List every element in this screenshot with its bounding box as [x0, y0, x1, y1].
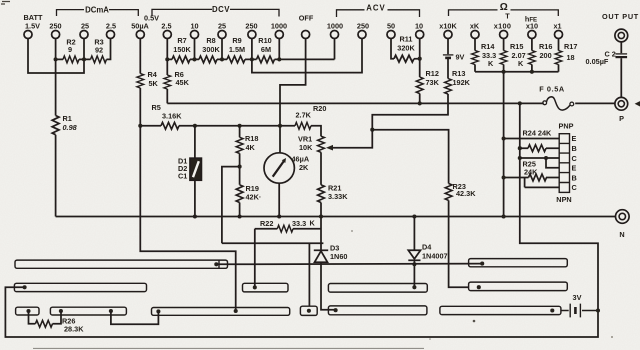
terminal DCV 10 [191, 31, 199, 39]
transistor socket PNP/NPN [559, 134, 569, 193]
terminal DCV 250 [248, 31, 256, 39]
wire rail (common) [56, 216, 616, 218]
svg-text:45K: 45K [176, 78, 190, 87]
svg-text:x10: x10 [526, 22, 538, 31]
resistor R8 [199, 56, 217, 63]
node D1D2C1 bottom [193, 214, 197, 218]
svg-text:PNP: PNP [558, 122, 573, 131]
wire D1D2C1 leads [194, 126, 196, 217]
node VR1 wiper / R13 / R23 [370, 128, 374, 132]
potentiometer VR1 [318, 136, 325, 152]
wire BATT down-right-up to 25 node [28, 39, 84, 74]
node R18 top [238, 124, 242, 128]
svg-text:250: 250 [49, 22, 61, 31]
bracket ohms [449, 10, 559, 16]
wire 9V to R13 [447, 58, 449, 79]
resistor R23 [445, 184, 452, 201]
bracket ACV [337, 10, 420, 17]
svg-text:250: 250 [245, 22, 257, 31]
wire wiper node down-left to VR1 arrow [331, 130, 372, 148]
svg-text:N: N [619, 230, 624, 239]
svg-text:192K: 192K [453, 78, 471, 87]
node bar I [477, 285, 481, 289]
node DCV10 [192, 57, 196, 61]
node 25/R2/R3 junction [82, 57, 86, 61]
svg-text:T: T [505, 12, 510, 21]
node bar B [23, 285, 27, 289]
svg-text:R16: R16 [539, 42, 552, 51]
svg-text:R13: R13 [452, 69, 465, 78]
svg-text:K: K [310, 219, 316, 228]
terminal xK [471, 31, 479, 39]
svg-text:300K: 300K [202, 45, 220, 54]
node bar D right [109, 309, 113, 313]
wire R18 leads [239, 126, 241, 185]
svg-text:28.3K: 28.3K [64, 325, 84, 334]
resistor R6 [164, 75, 171, 89]
svg-text:R1: R1 [63, 114, 72, 123]
wire D3 bottom to bar G [321, 262, 336, 311]
wire VR1 to R21 [320, 152, 322, 185]
svg-text:73K: 73K [426, 78, 440, 87]
terminal x10 [528, 31, 536, 39]
svg-text:R5: R5 [152, 103, 161, 112]
scan specks [1, 2, 10, 5]
wire 50uA down to R4 [139, 39, 141, 74]
svg-text:R4: R4 [148, 70, 158, 79]
switch bar C row3 [16, 307, 39, 315]
svg-text:9: 9 [68, 45, 72, 54]
svg-text:R17: R17 [564, 42, 577, 51]
svg-text:200: 200 [540, 51, 552, 60]
wire R18R19 junction left-down [222, 167, 240, 244]
node R5 left / R4 [138, 124, 142, 128]
battery 3V [561, 310, 598, 312]
node DCV1000 [277, 57, 281, 61]
node R21 rail [319, 214, 323, 218]
resistor R15 [500, 51, 507, 65]
terminal ACV 10 [416, 31, 424, 39]
node meter line / R5 [278, 124, 282, 128]
resistor R19 [236, 185, 243, 203]
svg-text:18: 18 [567, 53, 575, 62]
svg-text:B: B [572, 174, 577, 183]
resistor R5 [161, 122, 179, 129]
node bar J [550, 308, 554, 312]
bracket DCmA [57, 10, 139, 16]
svg-text:42K·: 42K· [246, 193, 262, 202]
svg-text:R7: R7 [177, 36, 186, 45]
node bar D left [59, 309, 63, 313]
svg-text:10: 10 [415, 22, 423, 31]
wire R21 bottom [320, 203, 322, 251]
node fuse-line loop [518, 101, 522, 105]
svg-text:E: E [572, 164, 577, 173]
svg-text:C: C [572, 183, 578, 192]
wire ACV50 R11 branch [391, 39, 420, 59]
resistor R25 [529, 174, 547, 181]
svg-text:3V: 3V [573, 293, 582, 302]
wire R4 to R5 node [139, 88, 141, 126]
svg-text:R20: R20 [313, 104, 326, 113]
node bar F [412, 285, 416, 289]
svg-text:92: 92 [95, 46, 103, 55]
wire R19 bottom [239, 203, 241, 217]
node N rail / D4 [412, 214, 416, 218]
resistor R14 [472, 51, 479, 65]
terminal OUT PUT [615, 29, 628, 42]
capacitor C2 [616, 53, 628, 55]
svg-text:10K: 10K [299, 143, 313, 152]
terminal x1 [555, 31, 563, 39]
terminal BATT 1.5V [24, 31, 32, 39]
scan artifact bottom [33, 347, 424, 349]
node D4 / row1 wire [412, 262, 416, 266]
wire ohm resistor bus [475, 71, 559, 73]
svg-text:xK: xK [470, 22, 480, 31]
wire OFF down-left [280, 39, 306, 153]
switch bar E row2 [243, 283, 289, 292]
wire 50uA column down to bar E3 [140, 126, 235, 311]
node DCV25 [220, 57, 224, 61]
wire row1 link to bar H [216, 263, 482, 266]
svg-text:25: 25 [218, 22, 226, 31]
wire R14 leads [474, 39, 476, 72]
node E1 [502, 136, 506, 140]
resistor R13 [445, 79, 452, 95]
node fuse-line R12 [418, 101, 422, 105]
svg-text:ACV: ACV [366, 4, 385, 13]
resistor R10 [257, 56, 275, 63]
wire R13 branch to R23 [372, 130, 448, 184]
switch bar J row3 [440, 306, 561, 314]
wire R22 left end down to bar [254, 229, 256, 288]
svg-text:R10: R10 [258, 36, 271, 45]
wire x10K to 9V [447, 39, 449, 55]
svg-text:K: K [488, 59, 494, 68]
svg-text:25: 25 [81, 22, 89, 31]
node R11/ACV10 [418, 57, 422, 61]
resistor R9 [227, 56, 245, 63]
svg-text:E: E [572, 134, 577, 143]
resistor R26 [35, 320, 52, 327]
wire pin E1 [504, 138, 560, 140]
node bar E3 right [234, 309, 238, 313]
wire D4 bottom [413, 260, 415, 287]
svg-text:2.5: 2.5 [106, 22, 116, 31]
wire R26 link barC-barD [29, 311, 62, 324]
terminal x10K [444, 31, 452, 39]
switch bar F row2 [328, 284, 427, 293]
terminal P [615, 97, 628, 110]
wire R24 leads pin B1 [520, 147, 559, 149]
terminal ACV 50 [387, 31, 395, 39]
resistor R22 [277, 225, 293, 232]
fuse F 0.5A [543, 101, 547, 105]
wire pin C1 [520, 157, 559, 159]
wire R18R19 horizontal to D3/smallbox [222, 243, 324, 306]
resistor R2 [63, 56, 79, 63]
node bar C [26, 309, 30, 313]
node 3V loop [596, 308, 600, 312]
wire C2 to P [620, 58, 622, 97]
node R19 rail [238, 214, 242, 218]
svg-text:x100: x100 [494, 22, 511, 31]
svg-text:x1: x1 [553, 22, 561, 31]
node meter rail [277, 214, 281, 218]
svg-text:R8: R8 [206, 36, 215, 45]
resistor R4 [137, 74, 144, 88]
terminal x100 [500, 31, 508, 39]
wire R16 leads [531, 39, 533, 72]
svg-text:R14: R14 [481, 42, 495, 51]
wire meter bottom [278, 183, 280, 216]
switch bar A row1 [15, 260, 228, 268]
terminal DCmA 25 [80, 31, 88, 39]
svg-text:OFF: OFF [299, 14, 314, 23]
node bus x100 [502, 70, 506, 74]
resistor R1 [52, 116, 59, 135]
diode D4 1N4007 [413, 217, 415, 251]
node 250/R1 junction [54, 57, 58, 61]
svg-text:0.05µF: 0.05µF [586, 57, 609, 66]
wire DCV chain [167, 39, 334, 60]
resistor R20 [295, 122, 311, 129]
wire DCmA chain [56, 39, 111, 60]
svg-text:R24 24K: R24 24K [523, 129, 553, 138]
svg-text:0.98: 0.98 [63, 123, 78, 132]
svg-text:R11: R11 [400, 35, 413, 44]
terminal DCV 2.5 [163, 31, 171, 39]
svg-text:C: C [572, 154, 578, 163]
svg-text:OUT PUT: OUT PUT [602, 12, 639, 21]
terminal DCmA 2.5 [107, 31, 115, 39]
arrowhead at P [635, 101, 640, 106]
node DCV2.5/R6 [165, 57, 169, 61]
terminal DCV 1000 [275, 31, 283, 39]
svg-text:1N4007: 1N4007 [422, 252, 448, 261]
resistor R11 [394, 55, 414, 62]
wire fuse line (R6 to P) [167, 102, 615, 104]
svg-text:R18: R18 [245, 134, 258, 143]
svg-text:320K: 320K [397, 44, 415, 53]
svg-text:3.33K: 3.33K [328, 192, 348, 201]
node bar H [480, 262, 484, 266]
wire pin C2 [525, 178, 560, 188]
node D1D2C1 top [193, 124, 197, 128]
wire R5 line [140, 126, 321, 136]
node bus x10 [530, 70, 534, 74]
terminal OFF [302, 31, 310, 39]
svg-text:50: 50 [387, 22, 395, 31]
switch bar I row2 [469, 282, 568, 291]
svg-text:R22: R22 [260, 219, 273, 228]
node B2 [502, 175, 506, 179]
switch bar E3 row3 [152, 308, 290, 316]
svg-text:1000: 1000 [271, 22, 287, 31]
wire loop vertical from fuse line [5, 103, 598, 337]
terminal N [616, 210, 630, 224]
terminal ACV 1000 [331, 31, 339, 39]
svg-text:33.3: 33.3 [292, 219, 306, 228]
node bar E3 left [156, 309, 160, 313]
svg-text:K: K [518, 59, 524, 68]
wire R17 leads [558, 39, 560, 72]
resistor R7 [172, 56, 190, 63]
switch bar D row3 [50, 307, 126, 315]
svg-text:150K: 150K [173, 45, 191, 54]
node small box [307, 309, 311, 313]
svg-text:NPN: NPN [556, 195, 571, 204]
svg-text:B: B [572, 144, 577, 153]
svg-text:P: P [619, 114, 624, 123]
wire R22 line [255, 228, 321, 230]
node bar G [334, 308, 338, 312]
svg-text:250: 250 [357, 22, 369, 31]
switch bar H row1 [469, 259, 568, 267]
wire R13 down-left jog [372, 94, 448, 130]
arrowhead VR1 wiper [326, 145, 333, 151]
svg-text:DCV: DCV [212, 5, 230, 14]
svg-text:2.5: 2.5 [161, 22, 171, 31]
resistor R18 [236, 137, 243, 153]
wire DCV250 to ACV250 [252, 39, 362, 73]
svg-text:10: 10 [190, 22, 198, 31]
node loop R24 [518, 146, 522, 150]
svg-text:4K: 4K [246, 143, 256, 152]
wire R1 column (250 node down to rail) [55, 59, 57, 216]
bracket DCV [152, 9, 279, 16]
svg-text:6M: 6M [261, 45, 271, 54]
wire R6 leads [166, 59, 168, 103]
battery 9V [443, 54, 454, 56]
svg-text:DCmA: DCmA [85, 6, 109, 15]
resistor R24 [528, 145, 546, 152]
svg-text:1.5M: 1.5M [229, 45, 245, 54]
svg-text:R15: R15 [510, 42, 523, 51]
svg-text:2K: 2K [299, 163, 309, 172]
svg-text:x10K: x10K [439, 22, 457, 31]
wire x100 bus down to N rail [503, 72, 505, 217]
terminal 50uA [136, 31, 144, 39]
wire C1 to E2 pin [546, 158, 559, 168]
svg-text:3.16K: 3.16K [162, 112, 182, 121]
node bar A [214, 262, 218, 266]
wire link barD-barE3 [111, 311, 158, 324]
svg-text:R12: R12 [426, 69, 439, 78]
svg-text:1000: 1000 [327, 22, 343, 31]
node N rail / x100 [502, 214, 506, 218]
svg-text:C1: C1 [178, 172, 187, 181]
meter 46uA 2K [264, 153, 294, 183]
switch bar G row3 [328, 306, 427, 315]
svg-text:24K: 24K [524, 168, 538, 177]
resistor R12 [416, 77, 423, 94]
svg-text:D4: D4 [422, 243, 432, 252]
svg-text:1N60: 1N60 [330, 252, 347, 261]
svg-text:2.7K: 2.7K [296, 111, 312, 120]
svg-text:9V: 9V [456, 53, 465, 62]
switch bar B row2 [14, 283, 146, 291]
wire R25 leads pin B2 [504, 177, 560, 179]
svg-text:0.5V: 0.5V [144, 14, 159, 23]
node C1/E2 link [544, 156, 548, 160]
wire R23 down to bar I [449, 200, 469, 287]
resistor R21 [318, 185, 325, 203]
resistor R17 [555, 51, 562, 65]
svg-text:50µA: 50µA [131, 22, 149, 31]
wire R15 leads [503, 39, 505, 72]
wire OUTPUT to C2 [620, 42, 622, 53]
terminal DCmA 250 [52, 31, 60, 39]
diode D3 1N60 [314, 249, 328, 251]
terminal ACV 250 [358, 31, 366, 39]
node R18/R19 junction [238, 165, 242, 169]
resistor R16 [529, 51, 536, 65]
terminal DCV 25 [218, 31, 226, 39]
switch box small row3 [300, 306, 317, 315]
svg-text:F 0.5A: F 0.5A [539, 85, 565, 94]
node bar E [253, 285, 257, 289]
svg-text:42.3K: 42.3K [456, 189, 476, 198]
svg-text:1.5V: 1.5V [25, 22, 40, 31]
svg-text:R9: R9 [232, 36, 241, 45]
resistor R3 [91, 56, 107, 63]
node DCV250 [250, 57, 254, 61]
component D1 D2 C1 block [190, 158, 201, 180]
svg-text:5K: 5K [149, 79, 159, 88]
node loop C1pin [518, 156, 522, 160]
wire R12 leads [419, 59, 421, 104]
